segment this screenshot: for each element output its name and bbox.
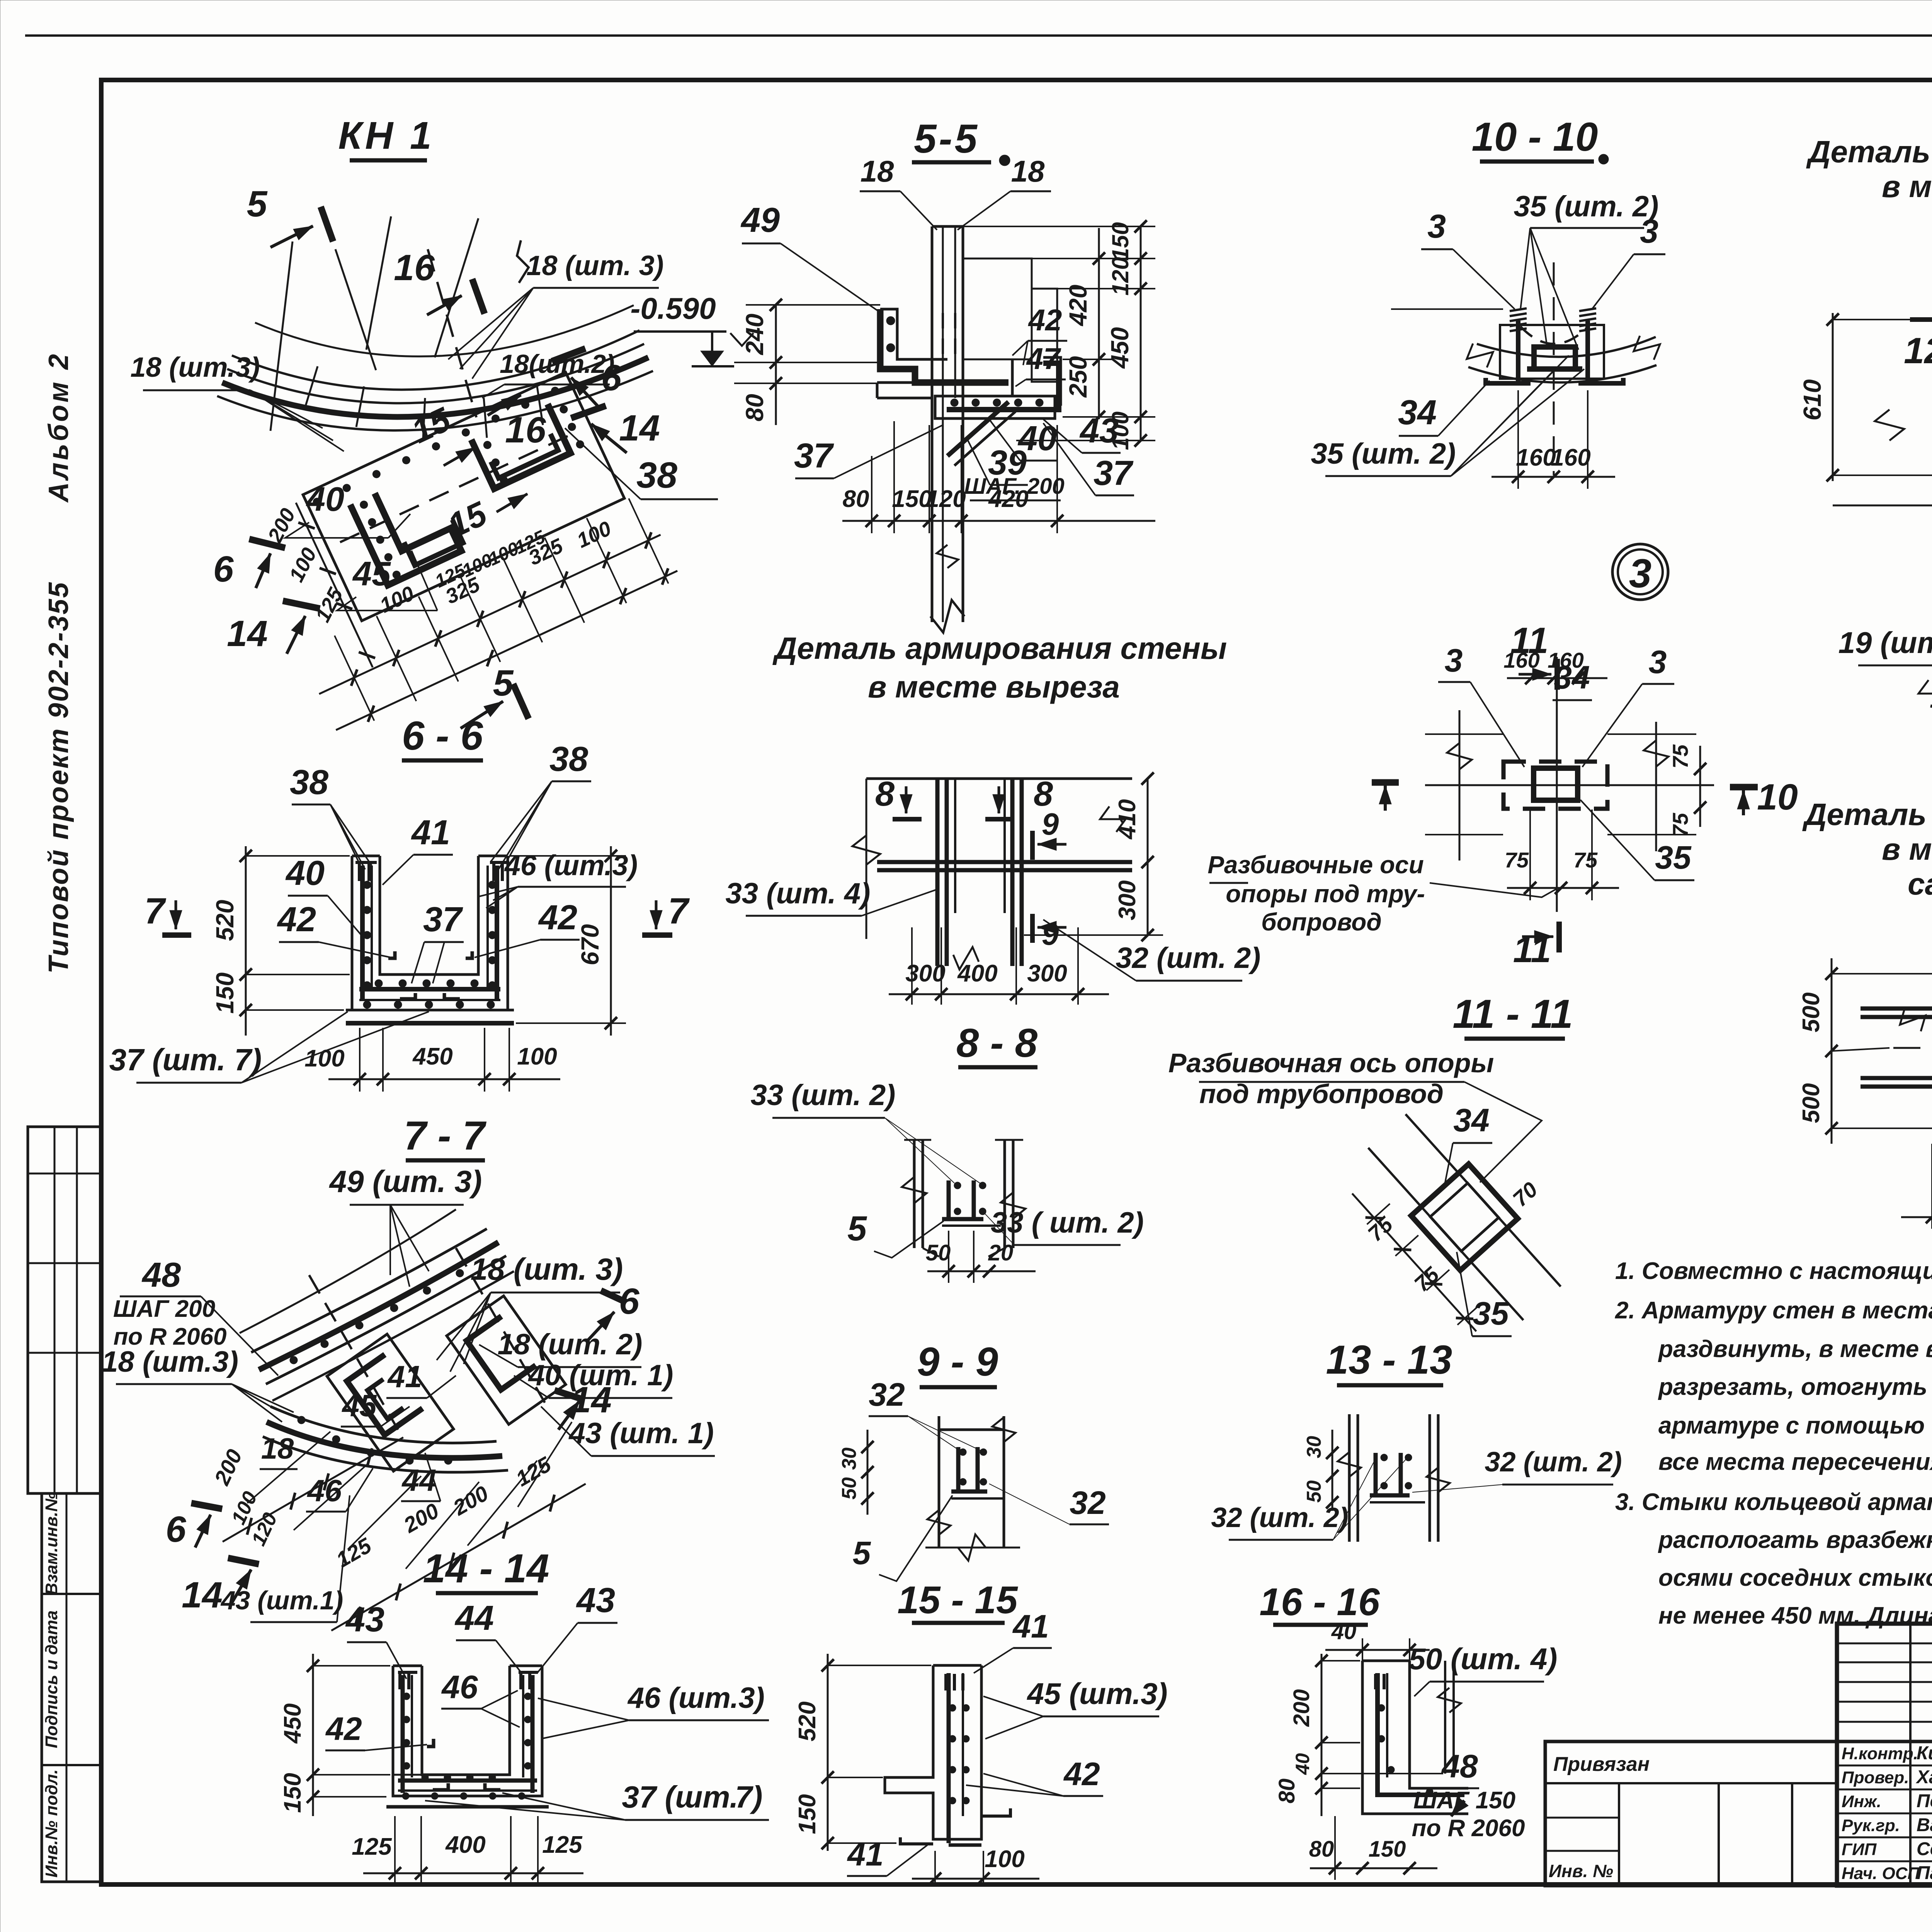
- svg-text:120: 120: [926, 486, 966, 512]
- svg-text:18: 18: [261, 1432, 294, 1465]
- svg-text:100: 100: [517, 1043, 557, 1070]
- 14-14 bottom line: [386, 1805, 549, 1809]
- 10-10 dashed box: [1500, 325, 1604, 379]
- title block outer frame: [1837, 1624, 1932, 1886]
- KN1 channel right: [471, 404, 571, 489]
- svg-text:35: 35: [1655, 839, 1692, 876]
- svg-text:Седых: Седых: [1917, 1839, 1932, 1859]
- KN1 radial joints on band: [305, 366, 318, 407]
- 9-9 dim 50 20: [927, 1270, 1036, 1272]
- 7-7 dashed centerlines: [309, 1275, 398, 1430]
- svg-text:30: 30: [838, 1447, 861, 1470]
- svg-text:100: 100: [985, 1846, 1024, 1872]
- svg-text:3: 3: [1427, 208, 1446, 245]
- svg-text:10: 10: [1757, 777, 1798, 818]
- svg-text:3): 3): [738, 1682, 765, 1714]
- svg-text:6 - 6: 6 - 6: [402, 713, 483, 759]
- 16-16 upper dims 30 50: [1332, 1430, 1333, 1511]
- svg-text:Н.контр.: Н.контр.: [1842, 1744, 1918, 1763]
- svg-text:80: 80: [1309, 1837, 1334, 1862]
- plan centerline vertical: [1556, 657, 1558, 912]
- svg-text:14 - 14: 14 - 14: [423, 1546, 549, 1591]
- svg-text:75: 75: [1668, 813, 1692, 837]
- svg-text:41: 41: [387, 1359, 422, 1394]
- salnik centerline dash: [1893, 1047, 1932, 1049]
- plan horizontal rays: [1425, 733, 1503, 735]
- svg-text:под трубопровод: под трубопровод: [1199, 1079, 1444, 1109]
- svg-text:38: 38: [549, 740, 588, 779]
- 6-6 bottom dim: [328, 1078, 560, 1080]
- svg-text:40: 40: [1331, 1619, 1357, 1644]
- svg-text:300: 300: [1114, 880, 1141, 920]
- svg-text:16 - 16: 16 - 16: [1259, 1580, 1380, 1624]
- KN1 small channel lower: [404, 520, 463, 565]
- svg-text:160: 160: [1551, 444, 1590, 471]
- svg-text:14: 14: [182, 1575, 223, 1616]
- svg-text:ГИП: ГИП: [1842, 1840, 1877, 1859]
- svg-text:34: 34: [1554, 659, 1590, 696]
- svg-text:16: 16: [394, 247, 435, 288]
- vyrez vertical bars below: [935, 870, 940, 966]
- left upper reference table: [28, 1127, 101, 1493]
- svg-text:37: 37: [1094, 454, 1134, 493]
- 7-7 dim chain bottom: [328, 1478, 589, 1636]
- salnik horizontal bars: [1861, 1007, 1932, 1011]
- 15-15 dim 100 bottom: [912, 1878, 1039, 1880]
- svg-text:43: 43: [1079, 412, 1119, 450]
- 9-9 bottom flares: [923, 1248, 939, 1257]
- svg-text:18 (шт. 3): 18 (шт. 3): [471, 1252, 623, 1286]
- 16-16 L wall: [1362, 1661, 1468, 1814]
- svg-text:осями соседних стыков в плане: осями соседних стыков в плане должно быт…: [1658, 1565, 1932, 1591]
- svg-text:300: 300: [1027, 960, 1067, 987]
- svg-text:41: 41: [1012, 1608, 1049, 1645]
- svg-text:6: 6: [601, 357, 622, 398]
- svg-text:610: 610: [1798, 379, 1826, 421]
- plan top dim 160 160: [1507, 677, 1607, 679]
- plan side verticals: [1459, 710, 1461, 861]
- svg-text:37: 37: [423, 900, 463, 939]
- 14-14 hook 42: [427, 1739, 434, 1747]
- svg-text:Привязан: Привязан: [1553, 1753, 1650, 1776]
- svg-text:18 (шт. 3): 18 (шт. 3): [526, 250, 663, 281]
- KN1 inner dashed axis: [340, 431, 578, 542]
- horizontal ray left: [1391, 308, 1503, 310]
- vyrez left vertical edge: [866, 779, 867, 939]
- plan dim 75 75 right: [1699, 746, 1701, 827]
- 16-16 upper sketch walls: [1348, 1414, 1351, 1542]
- svg-text:420: 420: [1064, 285, 1092, 327]
- KN1 centerline dashed: [428, 249, 476, 417]
- 10-10 base plates: [1486, 378, 1531, 383]
- 7-7 lower arc band: [270, 1406, 497, 1443]
- vyrez horizontal double bar: [877, 860, 1132, 864]
- 5-5 elevation mark small: [730, 333, 753, 346]
- svg-text:45: 45: [342, 1388, 377, 1423]
- svg-text:47: 47: [1026, 342, 1061, 376]
- svg-text:Ханин: Ханин: [1915, 1767, 1932, 1787]
- 14-14 top hooks: [398, 1671, 417, 1674]
- svg-text:43 (шт.1): 43 (шт.1): [220, 1586, 344, 1615]
- 5-5 slab rebar thick: [947, 363, 1059, 410]
- svg-text:75: 75: [1668, 744, 1692, 769]
- svg-text:150: 150: [279, 1773, 306, 1813]
- svg-text:14: 14: [227, 613, 268, 654]
- svg-text:100: 100: [304, 1045, 344, 1072]
- 5-5 wall dashed mid: [942, 313, 944, 363]
- 9-9 stud bars: [947, 1180, 951, 1219]
- svg-text:5: 5: [247, 184, 268, 224]
- 16-16 dims left: [1321, 1654, 1323, 1816]
- svg-text:160: 160: [1503, 648, 1539, 672]
- left stamp boxes: [42, 1493, 101, 1882]
- vyrez top wall line: [866, 777, 1132, 780]
- plan mark 10 right: [1730, 784, 1758, 791]
- svg-text:48: 48: [1441, 1748, 1478, 1784]
- svg-text:9 - 9: 9 - 9: [917, 1339, 998, 1384]
- vyrez bottom dim: [889, 993, 1109, 995]
- svg-text:42: 42: [277, 900, 316, 939]
- 6-6 channel outline: [352, 856, 508, 1010]
- vyrez left wall verticals: [935, 779, 940, 900]
- svg-text:3: 3: [1629, 551, 1651, 596]
- 6-6 wall rebar left: [360, 866, 365, 1001]
- svg-text:38: 38: [290, 763, 328, 802]
- 10-10 break marks: [1467, 344, 1493, 367]
- svg-text:670: 670: [576, 924, 604, 966]
- svg-text:33 (шт. 4): 33 (шт. 4): [726, 877, 871, 910]
- svg-text:19 (шт. 3): 19 (шт. 3): [1838, 626, 1932, 660]
- poz2 dim 610: [1832, 313, 1834, 481]
- svg-text:45 (шт.3): 45 (шт.3): [1026, 1677, 1167, 1711]
- svg-text:450: 450: [1106, 327, 1134, 369]
- svg-text:Типовой проект 902-2-355: Типовой проект 902-2-355: [43, 581, 74, 974]
- svg-text:40: 40: [285, 854, 325, 893]
- 15-15 dims left: [827, 1654, 829, 1851]
- annex box Привязан: [1545, 1742, 1837, 1886]
- 10-10 extension lines down: [1517, 390, 1519, 489]
- 13-13 slanted channel: [1411, 1164, 1518, 1270]
- svg-text:75: 75: [1505, 848, 1529, 872]
- 7-7 dim chain left: [219, 1432, 406, 1547]
- svg-text:49 (шт. 3): 49 (шт. 3): [329, 1164, 482, 1199]
- svg-text:400: 400: [445, 1832, 485, 1858]
- 10-10 channel: [1534, 347, 1575, 369]
- 7-7 upper thin arc: [240, 1209, 456, 1333]
- svg-text:32 (шт. 2): 32 (шт. 2): [1485, 1447, 1622, 1478]
- svg-text:35 (шт. 2): 35 (шт. 2): [1311, 437, 1456, 470]
- svg-text:80: 80: [843, 486, 869, 512]
- svg-text:бопровод: бопровод: [1261, 908, 1382, 936]
- poz2 wall top line: [1910, 317, 1932, 322]
- KN1 rebar dots: [312, 497, 322, 507]
- 5-5 bottom slab: [935, 396, 1055, 418]
- 6-6 hook small 42 left: [388, 951, 395, 958]
- svg-text:37 (шт.: 37 (шт.: [622, 1780, 738, 1814]
- 12-12 break marks: [1918, 680, 1932, 707]
- svg-text:Альбом 2: Альбом 2: [43, 352, 74, 503]
- svg-text:Провер.: Провер.: [1842, 1768, 1909, 1787]
- svg-text:46 (шт.: 46 (шт.: [627, 1682, 738, 1714]
- svg-text:18 (шт. 2): 18 (шт. 2): [498, 1328, 643, 1361]
- plan dashed rect: [1503, 762, 1607, 809]
- svg-text:49: 49: [740, 201, 780, 240]
- poz2 bottom line: [1833, 505, 1932, 507]
- 9-9 wall verticals: [913, 1140, 916, 1248]
- svg-text:18: 18: [861, 154, 894, 188]
- svg-text:160: 160: [1516, 444, 1556, 471]
- 15-15 inner rebar: [947, 1673, 951, 1843]
- svg-text:Деталь армирования стены: Деталь армирования стены: [1802, 797, 1932, 832]
- svg-text:7 - 7: 7 - 7: [404, 1113, 487, 1158]
- svg-text:32: 32: [1070, 1485, 1105, 1521]
- svg-text:125: 125: [352, 1833, 392, 1860]
- svg-text:Киселев: Киселев: [1917, 1743, 1932, 1764]
- 16-16 upper break marks: [1338, 1452, 1361, 1477]
- svg-text:50 (шт. 4): 50 (шт. 4): [1409, 1642, 1558, 1676]
- svg-text:32 (шт. 2): 32 (шт. 2): [1116, 942, 1261, 975]
- svg-text:5: 5: [847, 1209, 867, 1248]
- svg-text:80: 80: [741, 394, 769, 421]
- vyrez right wall verticals: [1010, 779, 1015, 900]
- salnik left rays: [1832, 973, 1932, 975]
- svg-text:ШАГ. 200: ШАГ. 200: [964, 474, 1065, 499]
- svg-text:5-5: 5-5: [914, 116, 980, 162]
- 14-14 left dim: [312, 1654, 314, 1816]
- svg-text:Разбивочная ось опоры: Разбивочная ось опоры: [1168, 1048, 1494, 1078]
- 16-16 right wall lines: [1444, 1661, 1446, 1774]
- plan mark 10 left: [1372, 779, 1399, 786]
- KN1 dimension chains lower: [319, 535, 661, 694]
- svg-text:арматуре с помощью сварочных к: арматуре с помощью сварочных клещей. Вар…: [1658, 1412, 1932, 1439]
- svg-text:13 - 13: 13 - 13: [1326, 1337, 1452, 1383]
- 15-15 foot hooks: [900, 1837, 933, 1844]
- svg-text:240: 240: [741, 314, 769, 355]
- svg-text:41: 41: [847, 1836, 883, 1872]
- svg-text:43: 43: [345, 1600, 384, 1639]
- svg-text:2. Арматуру стен в местах уста: 2. Арматуру стен в местах установки поз.…: [1615, 1297, 1932, 1324]
- svg-text:40: 40: [1292, 1753, 1313, 1775]
- svg-text:34: 34: [1453, 1102, 1489, 1138]
- 14-14 wall rebar: [401, 1675, 405, 1793]
- 6-6 rebar dots: [363, 881, 371, 889]
- svg-text:41: 41: [411, 813, 450, 852]
- svg-text:125: 125: [542, 1832, 583, 1858]
- svg-text:30: 30: [1303, 1436, 1325, 1458]
- svg-text:8: 8: [875, 775, 895, 813]
- 13-13 ext lines: [1367, 1204, 1390, 1225]
- svg-text:37: 37: [794, 437, 834, 475]
- svg-text:35: 35: [1473, 1295, 1509, 1332]
- svg-text:35 (шт. 2): 35 (шт. 2): [1514, 190, 1659, 223]
- 5-5 right dim line outer: [1140, 226, 1142, 440]
- 16-16 hook bottom right: [1451, 1801, 1464, 1816]
- svg-text:7: 7: [145, 891, 167, 932]
- svg-text:46 (шт.3): 46 (шт.3): [504, 849, 638, 881]
- 7-7 channel right rotated: [447, 1296, 566, 1425]
- vyrez right dim: [1147, 779, 1149, 935]
- 14-14 dots: [403, 1693, 410, 1700]
- 16-16 inner rebar L: [1378, 1673, 1464, 1795]
- KN1 formwork thin arc: [255, 305, 634, 356]
- 9-9 stud dots: [954, 1182, 961, 1189]
- KN1 formwork rays: [335, 249, 376, 370]
- svg-text:Ващенко: Ващенко: [1917, 1815, 1932, 1835]
- 5-5 formwork rects right: [963, 259, 1032, 359]
- svg-text:45: 45: [352, 554, 391, 593]
- svg-text:50: 50: [838, 1477, 861, 1500]
- svg-text:450: 450: [412, 1043, 452, 1070]
- svg-text:-0.590: -0.590: [630, 291, 716, 325]
- 7-7 band dots lower: [298, 1416, 305, 1424]
- 7-7 upper arc band: [251, 1229, 487, 1352]
- svg-text:15 - 15: 15 - 15: [897, 1578, 1018, 1622]
- svg-text:КН 1: КН 1: [338, 114, 434, 157]
- 6-6 bottom rebar: [359, 987, 500, 992]
- KN1 left dimension chain: [290, 500, 378, 670]
- KN1 foundation rectangle rotated: [240, 365, 681, 737]
- svg-text:16: 16: [505, 410, 546, 451]
- 15-15 upper dims 30 50: [867, 1430, 869, 1515]
- svg-text:7: 7: [668, 891, 690, 932]
- 5-5 step lines: [877, 381, 932, 384]
- annex grid: [1618, 1783, 1620, 1886]
- KN1 extension rays: [335, 636, 374, 721]
- 14-14 bottom dim: [363, 1872, 583, 1874]
- 10-10 dashed arc inside: [1520, 327, 1588, 344]
- svg-text:200: 200: [1289, 1689, 1314, 1727]
- svg-text:раздвинуть, в месте выреза и у: раздвинуть, в месте выреза и установки с…: [1658, 1336, 1932, 1362]
- 14-14 channel outline: [393, 1666, 542, 1796]
- 15-15 upper studs: [956, 1447, 961, 1492]
- svg-text:42: 42: [538, 898, 577, 937]
- svg-text:150: 150: [1107, 222, 1133, 261]
- 15-15 upper sketch walls: [938, 1416, 940, 1548]
- svg-text:разрезать, отогнуть и приварит: разрезать, отогнуть и приварить к обрамл…: [1658, 1374, 1932, 1400]
- svg-text:6: 6: [166, 1509, 187, 1550]
- svg-text:33 (шт. 2): 33 (шт. 2): [751, 1079, 896, 1112]
- svg-text:37 (шт. 7): 37 (шт. 7): [109, 1043, 262, 1077]
- svg-text:80: 80: [1274, 1779, 1299, 1804]
- node circle 3: [1612, 544, 1668, 600]
- svg-text:150: 150: [211, 973, 239, 1014]
- 6-6 left dim: [245, 846, 247, 1036]
- poz2 break: [1875, 410, 1904, 440]
- svg-text:8 - 8: 8 - 8: [956, 1020, 1038, 1066]
- svg-text:по R 2060: по R 2060: [1412, 1815, 1525, 1842]
- 5-5 wall vertical lines: [931, 226, 934, 622]
- svg-text:ШАГ 200: ШАГ 200: [113, 1296, 215, 1322]
- 6-6 top hooks: [358, 864, 361, 881]
- svg-text:250: 250: [1064, 356, 1092, 398]
- 15-15 upper bottom line: [925, 1547, 1020, 1549]
- svg-text:11 - 11: 11 - 11: [1452, 992, 1573, 1037]
- svg-text:в месте выреза: в месте выреза: [868, 670, 1120, 704]
- svg-text:34: 34: [1398, 393, 1437, 432]
- svg-text:33 ( шт. 2): 33 ( шт. 2): [991, 1206, 1144, 1239]
- svg-text:5: 5: [493, 663, 514, 704]
- 7-7 extension rays: [247, 1432, 330, 1503]
- svg-text:14: 14: [619, 408, 660, 449]
- svg-text:ШАГ 150: ШАГ 150: [1413, 1787, 1515, 1814]
- 15-15 section shape: [885, 1665, 981, 1839]
- svg-text:1. Совместно с настоящим листо: 1. Совместно с настоящим листом сматреть…: [1615, 1258, 1932, 1284]
- svg-text:520: 520: [211, 900, 239, 941]
- svg-text:опоры под тру-: опоры под тру-: [1226, 880, 1425, 908]
- svg-text:Взам.инв.№: Взам.инв.№: [42, 1492, 61, 1595]
- 16-16 bottom dim: [1310, 1867, 1437, 1869]
- svg-text:распологать вразбежку. Расстоя: распологать вразбежку. Расстояние между: [1658, 1527, 1932, 1553]
- svg-text:Нач. ОСП: Нач. ОСП: [1842, 1864, 1920, 1883]
- svg-text:46: 46: [441, 1669, 478, 1705]
- 10-10 dim line: [1492, 476, 1615, 478]
- svg-text:все места пересечения стержней: все места пересечения стержней.: [1658, 1449, 1932, 1475]
- svg-text:32: 32: [869, 1376, 905, 1413]
- svg-text:150: 150: [794, 1794, 821, 1834]
- 10-10 centerline: [1553, 262, 1555, 475]
- svg-text:42: 42: [1063, 1756, 1100, 1792]
- 16-16 upper studs: [1374, 1453, 1378, 1495]
- 9-9 wall top ticks: [904, 1139, 931, 1141]
- 5-5 left L-profile 49: [880, 309, 947, 359]
- svg-text:50: 50: [1303, 1480, 1325, 1503]
- svg-text:520: 520: [794, 1701, 821, 1741]
- svg-text:6: 6: [213, 549, 234, 590]
- svg-text:7): 7): [735, 1780, 762, 1814]
- 6-6 wall rebar right: [495, 866, 499, 1001]
- svg-text:3: 3: [1649, 644, 1667, 680]
- svg-text:Подпись и дата: Подпись и дата: [42, 1611, 61, 1748]
- 5-5 bottom dim chain: [842, 520, 1155, 522]
- svg-text:18: 18: [1011, 154, 1045, 188]
- svg-text:42: 42: [1028, 303, 1062, 337]
- 5-5 dim extension lines right: [963, 226, 1155, 227]
- svg-text:20: 20: [988, 1240, 1014, 1265]
- 5-5 lower wall hatch: [942, 491, 944, 622]
- svg-text:75: 75: [1573, 848, 1598, 872]
- svg-text:40: 40: [306, 480, 344, 518]
- svg-text:32 (шт. 2): 32 (шт. 2): [1211, 1502, 1348, 1533]
- top rule line: [25, 34, 1932, 37]
- 14-14 hooks bottom: [433, 1783, 448, 1790]
- svg-text:Пешикова: Пешикова: [1917, 1791, 1932, 1811]
- svg-text:11: 11: [1513, 929, 1551, 970]
- svg-text:5: 5: [853, 1535, 871, 1571]
- svg-text:Разбивочные оси: Разбивочные оси: [1207, 851, 1424, 879]
- svg-text:12: 12: [1904, 330, 1932, 371]
- svg-text:150: 150: [1369, 1837, 1406, 1862]
- svg-text:50: 50: [926, 1240, 951, 1265]
- salnik dim 500 500 left: [1831, 958, 1833, 1144]
- KN1 break mark: [517, 240, 529, 283]
- svg-text:Инж.: Инж.: [1842, 1792, 1881, 1811]
- svg-text:9: 9: [1042, 807, 1059, 841]
- 5-5 break bottom: [930, 600, 964, 633]
- svg-text:43: 43: [576, 1581, 615, 1620]
- title block upper thin rows: [1837, 1643, 1932, 1645]
- plan dim 75 75 bottom: [1507, 887, 1619, 889]
- 6-6 outer slab lines: [346, 1009, 514, 1012]
- svg-text:44: 44: [454, 1599, 494, 1638]
- svg-text:44: 44: [401, 1463, 437, 1497]
- svg-text:120: 120: [1107, 257, 1133, 296]
- svg-text:Деталь армирования стены: Деталь армирования стены: [772, 631, 1227, 665]
- 6-6 bottom hooks: [400, 993, 415, 999]
- svg-text:в месте установки: в месте установки: [1882, 169, 1932, 204]
- 16-16 dim 40 top: [1325, 1649, 1430, 1651]
- 7-7 channel left rotated: [327, 1334, 454, 1471]
- svg-text:500: 500: [1798, 1083, 1825, 1123]
